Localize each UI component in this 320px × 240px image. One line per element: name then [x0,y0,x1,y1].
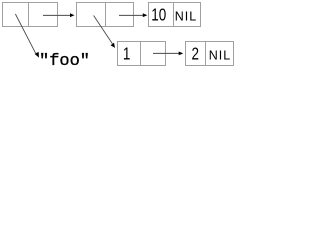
svg-text:10: 10 [151,6,166,25]
svg-text:NIL: NIL [209,48,231,62]
svg-text:1: 1 [123,45,131,64]
svg-text:2: 2 [192,45,200,64]
svg-text:NIL: NIL [175,10,197,24]
svg-text:"foo": "foo" [39,52,90,70]
